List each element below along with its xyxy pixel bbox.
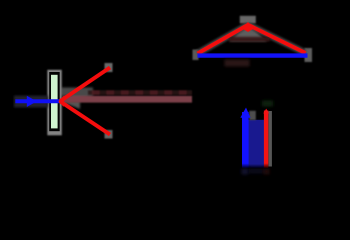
- faint smudge below red bar: [264, 169, 270, 175]
- prism right side (red): [248, 25, 306, 53]
- dark fringe around incident ray: [14, 96, 48, 108]
- gray cap at tip of upper diverging ray: [105, 63, 113, 72]
- red arrow shaft: [264, 111, 268, 168]
- gray wedge inside diverging rays near lens vertex: [60, 88, 93, 110]
- prism interior gray shading near apex: [229, 24, 267, 42]
- dark maroon smudge below prism base: [225, 60, 250, 67]
- gray fringe along prism left side: [198, 25, 249, 54]
- navy glow above incident ray: [15, 97, 44, 101]
- red vertex chunk at lens: [58, 96, 64, 107]
- lens outline (black): [49, 72, 60, 131]
- upper diverging ray (red): [60, 68, 110, 102]
- prism base (blue): [198, 53, 308, 57]
- blue arrow shaft: [242, 112, 249, 168]
- prism left side (red): [198, 25, 249, 54]
- faint dark dashed stripe above axial beam: [88, 90, 192, 95]
- gray cap at tip of lower diverging ray: [105, 130, 113, 139]
- lens body (pale green): [51, 75, 58, 129]
- gray block right of blue arrowhead: [249, 111, 256, 120]
- incident ray (blue): [15, 99, 60, 103]
- faint maroon stripe inside prism: [229, 37, 270, 42]
- incident ray arrowhead: [27, 96, 37, 107]
- faint smudge below navy band: [249, 169, 264, 174]
- blue arrow head: [240, 108, 250, 118]
- faded axial beam (maroon band): [63, 96, 192, 103]
- gray strip right of red arrow: [268, 111, 272, 167]
- faint smudge below blue bar: [242, 169, 249, 175]
- red apex chunk: [242, 22, 254, 32]
- prism left corner gray blob: [193, 50, 199, 61]
- gray fringe along prism right side: [248, 25, 306, 53]
- navy trail band: [249, 120, 265, 168]
- prism right corner gray blob: [305, 48, 313, 62]
- lens halo (gray frame): [47, 70, 62, 136]
- red arrow head: [263, 109, 269, 114]
- lower diverging ray (red): [60, 101, 110, 134]
- dark green smudge above red arrow: [262, 101, 273, 107]
- prism apex gray block: [240, 16, 256, 23]
